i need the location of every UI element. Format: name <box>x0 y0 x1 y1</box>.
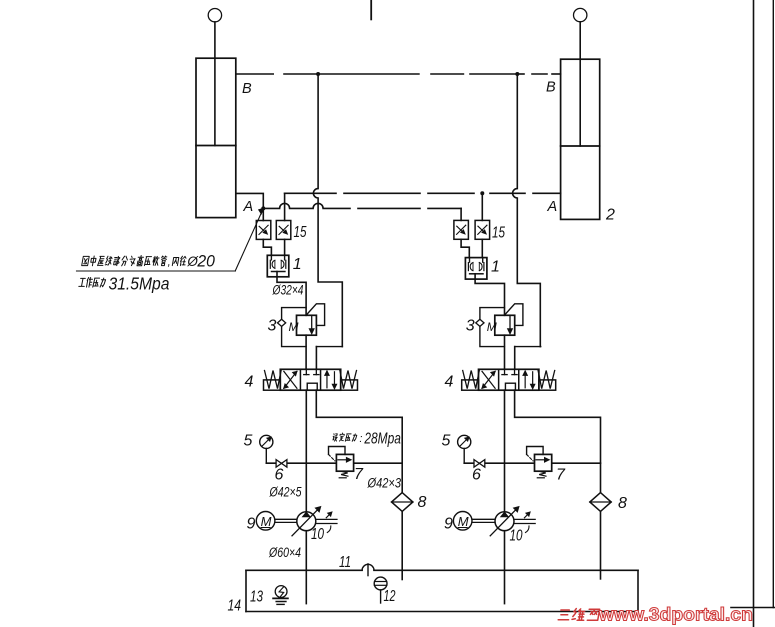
border frame line right outer <box>772 0 774 608</box>
node B-right junction <box>515 72 519 76</box>
svg-text:5: 5 <box>442 433 451 450</box>
suction strainer 12 <box>374 577 387 590</box>
svg-text:1: 1 <box>491 259 500 276</box>
svg-text:7: 7 <box>354 466 364 483</box>
svg-text:6: 6 <box>472 467 481 484</box>
cylinder 2 piston <box>561 145 600 147</box>
svg-text:8: 8 <box>618 495 627 512</box>
svg-text:15: 15 <box>492 225 505 242</box>
svg-text:B: B <box>546 80 556 96</box>
svg-text:Ø42×3: Ø42×3 <box>367 476 402 491</box>
cylinder left body <box>196 58 236 217</box>
svg-text:A: A <box>547 199 558 215</box>
svg-text:B: B <box>242 81 252 97</box>
svg-text:2: 2 <box>605 207 615 224</box>
svg-text:www.3dportal.cn: www.3dportal.cn <box>598 605 753 625</box>
wire item1-right output <box>475 274 504 316</box>
note text: set pressure 28Mpa <box>333 433 357 441</box>
wire valve3-left to valve4 ports <box>305 335 307 369</box>
note leader line <box>77 270 236 272</box>
wire left cylinder A port <box>236 193 263 208</box>
svg-text:3: 3 <box>268 318 277 335</box>
svg-text:M: M <box>487 320 497 334</box>
border frame line bottom right <box>731 607 775 609</box>
svg-text:12: 12 <box>384 588 396 605</box>
throttle check valve 15 right-a <box>454 220 469 239</box>
svg-text:Ø32×4: Ø32×4 <box>272 283 304 298</box>
directional valve 4 right <box>479 369 539 390</box>
pressure gauge 5 left, shutoff 6, relief valve 7 left <box>266 462 402 464</box>
cylinder left rod-end circle <box>208 9 221 22</box>
border frame line right inner <box>753 0 755 627</box>
pump 10 left <box>256 512 275 531</box>
pump 10 right <box>453 512 472 531</box>
throttle check valve 15 left-a <box>256 221 271 240</box>
wire right T line valve4 to filter <box>515 390 601 492</box>
svg-text:3: 3 <box>466 318 475 335</box>
wire left T line valve4 to filter <box>316 390 402 492</box>
pilot check valve 1 right <box>465 258 487 280</box>
throttle check valve 15 right-b <box>475 220 490 239</box>
svg-text:Ø60×4: Ø60×4 <box>268 545 301 560</box>
wire right P line valve4 to pump <box>504 390 506 512</box>
svg-text:31.5Mpa: 31.5Mpa <box>109 274 170 294</box>
svg-text:10: 10 <box>510 528 523 545</box>
svg-text:9: 9 <box>247 516 256 533</box>
svg-text:5: 5 <box>244 433 253 450</box>
svg-text::: : <box>359 433 362 445</box>
svg-text:M: M <box>289 320 299 334</box>
cylinder 2 piston rod <box>579 22 581 146</box>
svg-text:15: 15 <box>294 224 307 241</box>
wire left valve15 outlets <box>263 239 271 255</box>
wire filter8-left to tank <box>401 511 403 579</box>
wire right valve15 outlets <box>461 239 469 257</box>
svg-text:20: 20 <box>196 253 215 271</box>
wire pump suction right <box>504 531 506 604</box>
svg-text:,: , <box>168 257 171 269</box>
svg-text:A: A <box>243 199 254 215</box>
svg-text:11: 11 <box>339 554 351 571</box>
throttle check valve 15 left-b <box>276 221 291 240</box>
svg-text:9: 9 <box>444 516 453 533</box>
wire pump suction left <box>305 531 307 604</box>
wire B manifold dashed hose <box>236 73 273 75</box>
air breather 13 <box>275 586 287 598</box>
filler arc 11 <box>362 564 374 570</box>
note text: hose spec <box>82 256 167 266</box>
svg-text:13: 13 <box>250 589 263 606</box>
pressure valve 3 left <box>297 315 317 335</box>
wire item1-left output <box>277 272 306 316</box>
wire left check pair feeds <box>262 208 264 220</box>
node upper-A junction right <box>480 191 484 195</box>
svg-text:6: 6 <box>275 467 284 484</box>
svg-text:14: 14 <box>228 598 242 615</box>
cylinder 2 rod-end circle <box>574 8 587 21</box>
note text: working pressure <box>79 278 106 288</box>
cylinder left piston <box>196 145 236 147</box>
tank 14 <box>246 569 362 571</box>
pressure gauge 5 right, shutoff 6, relief valve 7 right <box>464 462 600 464</box>
directional valve 4 left <box>280 369 340 390</box>
svg-text:7: 7 <box>556 467 566 484</box>
svg-text:8: 8 <box>418 494 427 511</box>
svg-text:Ø42×5: Ø42×5 <box>269 485 302 500</box>
wire lower A line dashed hose (left cylinder A to right block) <box>263 203 350 208</box>
watermark 3dportal <box>558 609 600 621</box>
wire left P line valve4 to pump <box>305 390 307 512</box>
cylinder 2 body <box>561 59 600 219</box>
svg-text:28Mpa: 28Mpa <box>364 431 401 448</box>
svg-text:4: 4 <box>245 374 254 391</box>
svg-text:M: M <box>261 514 272 529</box>
wire right B branch vertical with crossover bulge <box>513 74 541 347</box>
pressure valve 3 right <box>495 315 515 335</box>
svg-text:4: 4 <box>445 374 454 391</box>
filter 8 left <box>392 493 413 512</box>
cylinder left piston rod <box>214 22 216 146</box>
node A-left junction <box>261 206 265 210</box>
wire right check pair feeds <box>460 208 462 220</box>
wire valve3-right to valve4 ports <box>504 335 506 369</box>
stray top line <box>370 0 372 19</box>
svg-text:1: 1 <box>293 256 302 273</box>
filter 8 right <box>590 493 611 512</box>
wire filter8-right to tank <box>600 511 602 579</box>
wire left B branch vertical with crossover bulge <box>313 74 342 347</box>
svg-text:M: M <box>458 514 469 529</box>
svg-text:10: 10 <box>311 526 324 543</box>
node B-left junction <box>316 72 320 76</box>
pilot check valve 1 left <box>267 255 289 276</box>
wire upper A line dashed hose (right cylinder A) <box>285 192 336 194</box>
